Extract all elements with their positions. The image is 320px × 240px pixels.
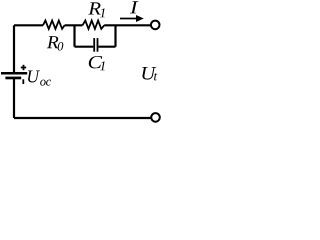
wire right of R1 (104, 24, 150, 26)
resistor R0 (43, 21, 65, 29)
resistor R1 (83, 21, 105, 29)
label Uoc (28, 71, 51, 86)
battery negative tick (22, 79, 24, 84)
label C1 (89, 56, 105, 70)
terminal bottom (151, 113, 160, 122)
label R1 (88, 2, 105, 17)
wire top-left horizontal (14, 24, 43, 26)
label R0 (47, 36, 63, 50)
wire between R0 and R1 (65, 24, 83, 26)
node B: right junction of RC pair (114, 25, 116, 46)
node A: left junction of RC pair (73, 25, 75, 46)
wire left vertical lower (13, 79, 15, 118)
wire bottom (14, 117, 151, 119)
label Ut (142, 67, 157, 80)
wire capacitor branch right (98, 46, 115, 48)
wire left vertical upper (13, 25, 15, 73)
label I (130, 1, 138, 13)
battery positive plate (1, 72, 27, 75)
battery negative plate (5, 77, 21, 80)
current arrow I (120, 18, 137, 20)
wire capacitor branch left (75, 46, 94, 48)
battery plus sign (21, 67, 26, 69)
capacitor C1 plates (93, 38, 95, 52)
terminal top (151, 21, 160, 30)
